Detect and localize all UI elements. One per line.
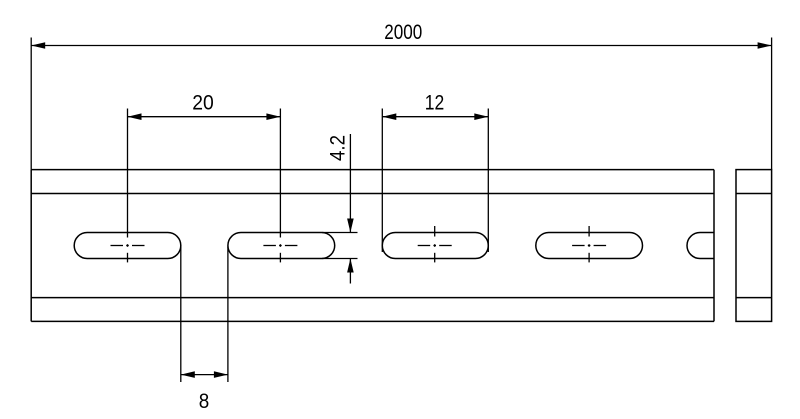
ext line left of 2000 <box>30 38 32 170</box>
svg-text:12: 12 <box>425 91 445 114</box>
rail break edge <box>713 170 715 322</box>
dimension 12 <box>382 109 488 253</box>
dimension 20 <box>128 109 281 238</box>
dim leader lower 4.2 <box>349 259 351 284</box>
slot 1 <box>74 233 181 259</box>
dim line 8 <box>181 374 228 376</box>
ext line left of 8 <box>180 247 182 383</box>
dim line 12 <box>382 116 488 118</box>
ext line bottom 4.2 <box>322 258 358 260</box>
arrow right 8 <box>214 371 228 378</box>
centerline cross slot 2 <box>263 244 297 262</box>
arrow up 4.2 <box>347 259 354 273</box>
arrow left 2000 <box>31 42 45 49</box>
ext line right of 12 <box>487 109 489 253</box>
rail top edge <box>31 169 714 171</box>
dimension 2000 <box>31 38 771 170</box>
dim line 2000 <box>31 45 771 47</box>
svg-text:20: 20 <box>192 91 214 114</box>
svg-text:8: 8 <box>199 390 210 413</box>
arrow down 4.2 <box>347 219 354 233</box>
rail bottom edge <box>31 320 714 322</box>
ext line left of 12 <box>381 109 383 253</box>
ext line left of 20 (slot 1 centerline) <box>127 109 129 238</box>
slot 5 partial at break <box>687 233 714 259</box>
arrow right 12 <box>474 113 488 120</box>
arrow left 20 <box>128 113 142 120</box>
centerline cross slot 3 <box>418 226 452 262</box>
svg-text:2000: 2000 <box>384 21 422 44</box>
slot 3 <box>382 233 488 259</box>
rail main body outline <box>31 170 714 322</box>
svg-text:4.2: 4.2 <box>327 135 350 161</box>
ext line right of 20 (slot 2 centerline) <box>279 109 281 238</box>
slot 4 <box>536 233 643 259</box>
rail right end piece <box>736 170 772 322</box>
dim leader upper 4.2 <box>349 134 351 233</box>
rail lower fold line <box>31 297 714 299</box>
arrow left 8 <box>181 371 195 378</box>
arrow left 12 <box>382 113 396 120</box>
dim line 20 <box>128 116 281 118</box>
arrow right 20 <box>266 113 280 120</box>
centerline cross slot 1 <box>111 244 145 262</box>
rail upper fold line <box>31 193 714 195</box>
arrow right 2000 <box>758 42 772 49</box>
dimension 4.2 <box>322 134 358 284</box>
ext line right of 8 <box>227 247 229 383</box>
ext line right of 2000 <box>771 38 773 170</box>
slot 2 <box>228 233 335 259</box>
centerline cross slot 4 <box>572 226 606 262</box>
ext line top 4.2 <box>322 232 358 234</box>
rail left end edge <box>30 170 32 322</box>
dimension 8 <box>181 247 228 383</box>
